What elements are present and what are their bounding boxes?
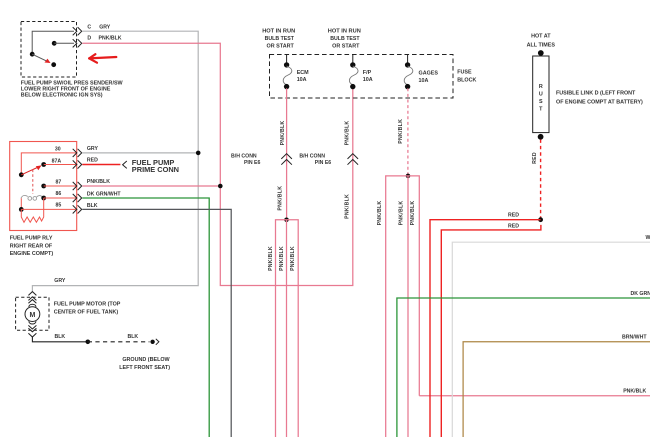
relay blade arrowhead (36, 165, 42, 170)
wire DK GRN/WHT pin86 down left side (82, 198, 209, 437)
svg-text:RED: RED (87, 157, 98, 163)
svg-text:ALL TIMES: ALL TIMES (527, 42, 556, 48)
svg-text:PNK/BLK: PNK/BLK (290, 246, 296, 271)
svg-text:FUEL PUMP SW/OIL PRES SENDER/S: FUEL PUMP SW/OIL PRES SENDER/SW (21, 80, 124, 86)
relay internal wire pin 87A (44, 164, 77, 166)
motor connector chevron bottom outside (28, 333, 36, 337)
switch lower contact node (51, 62, 56, 67)
svg-text:HOT IN RUN: HOT IN RUN (328, 28, 361, 34)
svg-text:M: M (29, 312, 35, 319)
fuse F/P bottom terminal (350, 84, 355, 89)
svg-text:RED: RED (532, 152, 538, 164)
connector chevrons pin D (73, 39, 82, 47)
wire GRY from pin C down to motor (32, 31, 198, 291)
switch internal wire to pin C (32, 31, 74, 52)
wire RED dashed from fusible link (540, 140, 542, 220)
wire BLK from motor (32, 337, 87, 342)
fuse GAGES feed stub (407, 54, 409, 62)
fusible link body (533, 56, 549, 133)
svg-text:RED: RED (508, 223, 519, 229)
svg-text:PNK/BLK: PNK/BLK (399, 201, 405, 226)
relay coil right node (pin 86) (41, 196, 46, 201)
svg-text:FUSIBLE LINK D (LEFT FRONT: FUSIBLE LINK D (LEFT FRONT (556, 90, 636, 96)
svg-text:PNK/BLK: PNK/BLK (278, 186, 284, 211)
svg-text:GAGES: GAGES (419, 71, 439, 77)
switch contact D node (52, 41, 57, 46)
svg-text:BULB TEST: BULB TEST (330, 36, 360, 42)
switch blade (moving contact) (32, 54, 49, 62)
branch wire ECM center down (286, 220, 288, 437)
relay coil (21, 195, 28, 198)
wire PNK/BLK dashed from GAGES fuse (407, 88, 409, 176)
fuse GAGES bottom terminal (405, 84, 410, 89)
junction node GRY (196, 151, 201, 156)
fuse GAGES top terminal (405, 62, 410, 67)
wire PNK/BLK pin87 to junction (82, 185, 220, 187)
wire BLK dashed to ground (88, 341, 150, 343)
motor connector chevrons bottom inside (28, 325, 36, 331)
motor connector chevrons top inside (28, 297, 36, 303)
fuse ECM top terminal (284, 62, 289, 67)
svg-text:HOT IN RUN: HOT IN RUN (262, 28, 295, 34)
relay chevrons pin 87A (73, 160, 82, 168)
relay chevrons pin 86 (73, 194, 82, 202)
svg-text:PNK/BLK: PNK/BLK (99, 36, 122, 42)
svg-text:BLK: BLK (128, 334, 139, 340)
svg-text:CENTER OF FUEL TANK): CENTER OF FUEL TANK) (54, 309, 119, 315)
fuse F/P top terminal (350, 62, 355, 67)
svg-text:87A: 87A (52, 158, 62, 164)
wire PNK/BLK from ECM fuse down (286, 88, 288, 220)
wire GRY pin30 to junction (82, 152, 198, 154)
svg-text:30: 30 (55, 146, 61, 152)
splice bar ECM (276, 220, 299, 437)
svg-text:PNK/BLK: PNK/BLK (280, 121, 286, 146)
svg-text:OR START: OR START (267, 44, 295, 50)
svg-text:PNK/BLK: PNK/BLK (623, 388, 646, 394)
svg-text:FUEL PUMP MOTOR (TOP: FUEL PUMP MOTOR (TOP (54, 301, 121, 307)
fuel pump relay box (10, 142, 77, 231)
wire RED 1 left and down (430, 220, 541, 437)
splice bar GAGES (386, 176, 420, 437)
relay switch pole node (19, 172, 24, 177)
svg-text:DK GRN/WHT: DK GRN/WHT (631, 291, 650, 297)
svg-text:10A: 10A (297, 77, 307, 83)
motor brush bottom (29, 321, 36, 324)
svg-text:DK GRN/WHT: DK GRN/WHT (87, 192, 122, 198)
svg-text:PNK/BLK: PNK/BLK (268, 246, 274, 271)
svg-text:PIN E6: PIN E6 (315, 160, 332, 166)
svg-text:BRN/WHT: BRN/WHT (622, 334, 647, 340)
relay internal wire pin 86 (44, 197, 77, 199)
switch blade red arrowhead (45, 59, 51, 63)
svg-text:LEFT FRONT SEAT): LEFT FRONT SEAT) (119, 365, 170, 371)
svg-text:GRY: GRY (99, 24, 111, 30)
svg-text:S: S (539, 99, 543, 105)
junction node BLK (86, 340, 91, 345)
fuse F/P feed stub (352, 54, 354, 62)
svg-text:OF ENGINE COMPT AT BATTERY): OF ENGINE COMPT AT BATTERY) (556, 100, 643, 106)
wire BRN/WHT from right edge (463, 342, 650, 437)
svg-text:HOT AT: HOT AT (531, 34, 551, 40)
svg-text:RIGHT REAR OF: RIGHT REAR OF (10, 243, 53, 249)
fusible link top terminal (538, 50, 544, 56)
red pointer arrow (89, 54, 116, 63)
svg-text:10A: 10A (419, 78, 429, 84)
prime connector chevron (123, 161, 127, 168)
svg-text:PNK/BLK: PNK/BLK (410, 201, 416, 226)
fuel pump motor dashed box (16, 297, 49, 330)
svg-text:PNK/BLK: PNK/BLK (344, 121, 350, 146)
svg-text:B/H CONN: B/H CONN (231, 153, 257, 159)
svg-text:GRY: GRY (54, 278, 66, 284)
svg-text:FUEL PUMP RLY: FUEL PUMP RLY (10, 236, 53, 242)
wire DK GRN from right edge (397, 298, 650, 437)
svg-text:R: R (539, 84, 543, 90)
wire RED pin87A to prime connector (82, 164, 120, 166)
fuse GAGES element (404, 66, 413, 85)
relay chevrons pin 87 (73, 182, 82, 190)
svg-text:RED: RED (508, 213, 519, 219)
relay switch blade to 87A (21, 167, 39, 175)
junction node PNK (218, 184, 223, 189)
relay internal wire coil-left to 85 (20, 198, 22, 207)
svg-text:86: 86 (56, 191, 62, 197)
B/H connector chevron on ECM wire (281, 154, 292, 165)
svg-text:PIN E6: PIN E6 (244, 160, 261, 166)
svg-text:PRIME CONN: PRIME CONN (132, 165, 179, 174)
svg-text:OR START: OR START (332, 44, 360, 50)
svg-text:D: D (87, 36, 91, 42)
svg-text:PNK/BLK: PNK/BLK (279, 246, 285, 271)
wire PNK/BLK from pin D down to F/P fuse (82, 43, 353, 285)
wire RED 2 hook left and down (441, 225, 541, 437)
relay 85 junction node (19, 207, 24, 212)
svg-text:B/H CONN: B/H CONN (299, 153, 325, 159)
relay chevrons pin 85 (73, 205, 82, 213)
svg-text:ECM: ECM (297, 70, 309, 76)
fuse ECM bottom terminal (284, 84, 289, 89)
svg-text:LOWER RIGHT FRONT OF ENGINE: LOWER RIGHT FRONT OF ENGINE (21, 86, 111, 92)
relay internal wire pin30 (21, 153, 76, 173)
svg-text:PNK/BLK: PNK/BLK (398, 119, 404, 144)
svg-text:ENGINE COMPT): ENGINE COMPT) (10, 251, 54, 257)
junction node GAGES splice (406, 174, 411, 179)
oil pressure switch dashed box (21, 22, 77, 78)
svg-text:GRY: GRY (87, 146, 99, 152)
fuse ECM element (283, 66, 292, 85)
svg-text:BULB TEST: BULB TEST (265, 36, 295, 42)
svg-text:GROUND (BELOW: GROUND (BELOW (122, 357, 170, 363)
svg-text:C: C (87, 24, 91, 30)
relay internal wire pin 87 (44, 185, 77, 187)
motor brush top (29, 304, 36, 307)
relay 87A terminal node (41, 162, 46, 167)
svg-text:U: U (539, 92, 543, 98)
svg-text:85: 85 (56, 202, 62, 208)
wire WHT from right edge (452, 242, 650, 437)
svg-text:PNK/BLK: PNK/BLK (87, 179, 110, 185)
junction node RED (538, 217, 543, 222)
relay chevrons pin 30 (73, 149, 82, 157)
junction node ECM splice (284, 218, 289, 223)
switch internal wire to pin D (54, 42, 74, 44)
B/H connector chevron on F/P wire (348, 154, 359, 165)
relay dashed actuator link (32, 170, 34, 195)
relay internal wire pin 85 (21, 208, 76, 210)
ground symbol (150, 340, 154, 344)
motor connector chevron top outside (28, 292, 36, 296)
svg-text:BLK: BLK (87, 203, 98, 209)
svg-text:BLOCK: BLOCK (457, 77, 476, 83)
fuse F/P element (349, 66, 358, 85)
branch wire GAGES center down (407, 176, 409, 437)
switch common pole node (30, 52, 35, 57)
wire PNK/BLK to right edge (419, 395, 650, 397)
svg-text:PNK/BLK: PNK/BLK (377, 201, 383, 226)
svg-text:10A: 10A (363, 77, 373, 83)
fusible link bottom terminal (538, 134, 544, 140)
svg-text:FUSE: FUSE (457, 69, 472, 75)
fuse block dashed box (270, 55, 454, 99)
relay 87 terminal node (41, 184, 46, 189)
svg-text:F/P: F/P (363, 70, 372, 76)
motor body M (25, 307, 40, 322)
svg-text:WHT: WHT (646, 235, 650, 241)
svg-text:BLK: BLK (55, 334, 66, 340)
connector chevrons pin C (73, 27, 82, 35)
wire BLK pin85 down (82, 209, 231, 437)
svg-text:PNK/BLK: PNK/BLK (344, 194, 350, 219)
fuse ECM feed stub (286, 54, 288, 62)
svg-text:87: 87 (56, 179, 62, 185)
relay internal resistor (21, 198, 43, 222)
svg-text:BELOW ELECTRONIC IGN SYS): BELOW ELECTRONIC IGN SYS) (21, 93, 103, 99)
